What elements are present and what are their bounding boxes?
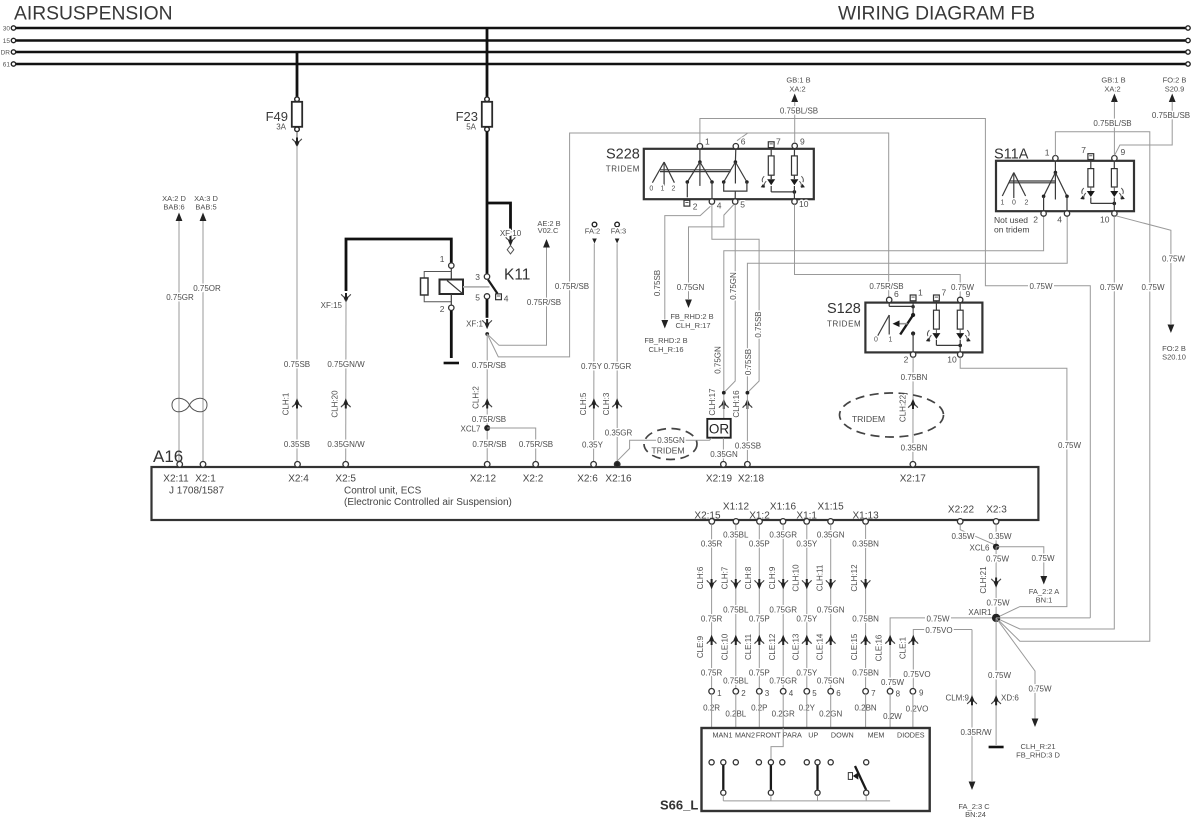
- svg-text:CLE:14: CLE:14: [815, 633, 824, 660]
- svg-text:DR: DR: [1, 49, 11, 56]
- svg-text:S228: S228: [606, 147, 640, 163]
- svg-text:1: 1: [889, 337, 893, 344]
- svg-text:X2:2: X2:2: [523, 474, 544, 485]
- svg-text:X2:15: X2:15: [694, 510, 721, 521]
- S128 pin 7: [934, 295, 940, 301]
- svg-text:0.75P: 0.75P: [749, 669, 770, 678]
- svg-text:0: 0: [1012, 200, 1016, 207]
- svg-text:CLH:20: CLH:20: [331, 390, 340, 418]
- svg-text:X2:18: X2:18: [738, 474, 765, 485]
- wire XCL6 to XAIR1: [995, 547, 997, 614]
- node FB_RHD:2 B CLH_R:17: [670, 300, 713, 330]
- svg-text:8: 8: [896, 690, 901, 699]
- svg-text:X2:16: X2:16: [605, 474, 632, 485]
- svg-text:Not used: Not used: [994, 215, 1028, 225]
- S11A pin 2: [1041, 211, 1046, 216]
- svg-text:1: 1: [661, 186, 665, 193]
- svg-text:DOWN: DOWN: [831, 731, 854, 740]
- svg-text:X2:19: X2:19: [706, 474, 733, 485]
- node GB:1 B XA:2 above S11A: [1101, 76, 1125, 103]
- svg-text:0.75BL/SB: 0.75BL/SB: [780, 106, 818, 115]
- connector below F49: [296, 132, 298, 139]
- svg-text:5: 5: [740, 200, 745, 210]
- pin X1:1: [796, 510, 817, 524]
- wire S228 pin 6 diagonal: [737, 133, 748, 141]
- svg-text:0.75BN: 0.75BN: [852, 615, 879, 624]
- svg-text:3A: 3A: [276, 123, 286, 132]
- svg-text:0.75BN: 0.75BN: [901, 373, 928, 382]
- svg-text:TRIDEM: TRIDEM: [651, 446, 684, 456]
- svg-text:4: 4: [789, 689, 794, 698]
- S128 switch symbol: [874, 302, 915, 352]
- wire S228 pin 4 to S11A pin 4 riser: [712, 204, 759, 392]
- svg-text:on tridem: on tridem: [994, 225, 1029, 235]
- wire A16 X1:13 to S66_L: [865, 524, 867, 688]
- wire XCL6 to FA_2:2 A: [996, 547, 1044, 576]
- svg-text:GB:1 B: GB:1 B: [786, 76, 810, 85]
- bus line 61: [3, 61, 1190, 68]
- svg-text:X1:2: X1:2: [749, 510, 770, 521]
- svg-text:FRONT: FRONT: [756, 731, 781, 740]
- pin 2: [449, 305, 454, 310]
- svg-text:0.2VO: 0.2VO: [906, 704, 929, 713]
- svg-text:OR: OR: [709, 422, 730, 437]
- pin X1:12: [723, 502, 750, 525]
- svg-text:X2:11: X2:11: [163, 474, 189, 485]
- svg-text:X1:12: X1:12: [723, 502, 750, 513]
- svg-text:0.75BN: 0.75BN: [852, 669, 879, 678]
- svg-text:0.75SB: 0.75SB: [653, 270, 662, 296]
- bus line 30: [3, 25, 1190, 32]
- svg-text:0.75GR: 0.75GR: [604, 362, 632, 371]
- svg-text:2: 2: [904, 355, 909, 365]
- wire XAIR1 to CLH_R:21 FB_RHD:3 D: [996, 618, 1035, 719]
- svg-text:0.75W: 0.75W: [951, 283, 975, 292]
- S228 selector 0 1 2: [649, 162, 675, 193]
- svg-text:TRIDEM: TRIDEM: [852, 414, 885, 424]
- svg-text:0.75R/SB: 0.75R/SB: [527, 298, 561, 307]
- svg-text:10: 10: [799, 199, 809, 209]
- S128 pin 10: [958, 352, 963, 357]
- svg-text:5A: 5A: [466, 123, 476, 132]
- pin 6: [828, 689, 834, 695]
- svg-text:FA:2: FA:2: [585, 227, 600, 236]
- wire S128 pin 2 to X2:17: [912, 357, 914, 461]
- wire S11A pin 10 to XAIR1: [996, 216, 1114, 629]
- wire S228 pin 9 to GB:1B: [794, 102, 796, 143]
- S228 selector B: [722, 149, 749, 199]
- wire XAIR1 to MEM common (pin 8): [890, 618, 996, 689]
- svg-text:CLH:16: CLH:16: [732, 390, 741, 418]
- wire S228 pin 5 to FB_RHD:2B CLH_R:17: [689, 204, 734, 299]
- wire FA:3 to X2:16: [616, 244, 618, 462]
- svg-text:CLH:10: CLH:10: [791, 564, 800, 592]
- S228 pin 1: [697, 144, 702, 149]
- svg-text:FO:2 B: FO:2 B: [1163, 76, 1187, 85]
- svg-text:3: 3: [475, 272, 480, 282]
- wire CLH:16 to X2:18: [746, 395, 748, 462]
- svg-text:CLE:9: CLE:9: [696, 635, 705, 658]
- fuse F49: [266, 97, 303, 132]
- wire A16 X1:12 to S66_L: [735, 524, 737, 688]
- svg-text:CLE:15: CLE:15: [850, 633, 859, 660]
- svg-text:BN:24: BN:24: [965, 810, 986, 819]
- pin X2:19: [706, 462, 733, 485]
- pin X2:17: [900, 462, 927, 485]
- wire A16 X1:2 to S66_L: [758, 524, 760, 688]
- S228 lamp pin9: [790, 149, 805, 188]
- wire X2:18 net to S11A pin 4: [747, 216, 1067, 392]
- svg-text:0.75P: 0.75P: [749, 615, 770, 624]
- bus line DR: [1, 49, 1191, 56]
- svg-text:0.75R: 0.75R: [701, 615, 723, 624]
- S11A coupling lines: [1009, 180, 1055, 182]
- svg-text:0.75GR: 0.75GR: [769, 606, 797, 615]
- wire S228 pin 1 net to XAIR1: [700, 119, 1090, 618]
- svg-text:0.75R/SB: 0.75R/SB: [472, 415, 506, 424]
- svg-text:0.35R: 0.35R: [701, 540, 723, 549]
- svg-text:0.75GN: 0.75GN: [677, 283, 705, 292]
- svg-text:2: 2: [440, 304, 445, 314]
- S11A pin 1: [1053, 156, 1058, 161]
- svg-text:0.75SB: 0.75SB: [744, 349, 753, 375]
- wire into S66_L: [782, 694, 784, 760]
- S128 lamp pin9: [956, 303, 971, 342]
- svg-text:0: 0: [874, 337, 878, 344]
- svg-text:CLH:6: CLH:6: [696, 566, 705, 589]
- pin X2:3: [986, 505, 1007, 525]
- svg-text:0.75R/SB: 0.75R/SB: [555, 282, 589, 291]
- svg-text:AIRSUSPENSION: AIRSUSPENSION: [14, 4, 173, 25]
- svg-text:2: 2: [672, 186, 676, 193]
- S228 pin 10: [792, 199, 797, 204]
- ground XF:1: [466, 319, 492, 329]
- svg-text:Control unit, ECS: Control unit, ECS: [344, 486, 422, 497]
- svg-text:S20.9: S20.9: [1165, 84, 1185, 93]
- svg-text:0.75W: 0.75W: [1028, 684, 1052, 693]
- ground K11: [444, 362, 459, 365]
- svg-text:CLH:9: CLH:9: [768, 566, 777, 589]
- wire S228 pin 4 to FB_RHD:2B CLH_R:16: [665, 206, 711, 319]
- svg-text:0.75W: 0.75W: [986, 599, 1010, 608]
- node FB_RHD:2 B CLH_R:16: [644, 320, 687, 354]
- svg-text:FB_RHD:2 B: FB_RHD:2 B: [670, 312, 713, 321]
- wire A16 X1:16 to S66_L: [782, 524, 784, 688]
- pin X1:16: [770, 502, 797, 525]
- svg-text:MAN2: MAN2: [735, 731, 755, 740]
- wire CLM:9 column to FA_2:3 C: [971, 630, 973, 782]
- wire K11 pin 5 down: [486, 299, 489, 318]
- S11A pin 9: [1112, 156, 1117, 161]
- svg-text:0.75W: 0.75W: [1031, 554, 1055, 563]
- svg-text:0.75W: 0.75W: [988, 671, 1012, 680]
- S11A lamp pin7: [1080, 158, 1095, 199]
- svg-text:XAIR1: XAIR1: [968, 608, 992, 617]
- pin X2:4: [288, 462, 309, 485]
- wire into S66_L: [735, 694, 737, 760]
- pin X2:12: [470, 462, 497, 485]
- pin 4: [496, 294, 502, 300]
- S11A selector 1 0 2: [1001, 173, 1029, 207]
- node FA:2: [585, 222, 600, 243]
- pin X2:11: [163, 462, 189, 485]
- S11A pin 7: [1088, 154, 1094, 160]
- svg-text:0.75W: 0.75W: [1141, 283, 1165, 292]
- S128 pin 9: [958, 297, 963, 302]
- svg-text:0.75BL/SB: 0.75BL/SB: [1093, 119, 1131, 128]
- svg-text:10: 10: [947, 355, 957, 365]
- S128 lamp pin7: [926, 299, 941, 341]
- svg-text:PARA: PARA: [783, 731, 802, 740]
- svg-text:9: 9: [919, 689, 924, 698]
- pin X2:1: [195, 462, 216, 485]
- label 0.35GN: [657, 436, 686, 444]
- label 0.75VO: [925, 626, 954, 634]
- svg-text:0.35GR: 0.35GR: [769, 531, 797, 540]
- pin 5: [484, 294, 489, 299]
- ellipse TRIDEM: [644, 429, 697, 460]
- pin X1:2: [749, 510, 770, 524]
- svg-text:7: 7: [1081, 145, 1086, 155]
- pin 7: [863, 689, 869, 695]
- control unit A16: [152, 447, 1039, 520]
- wire OR to X2:19: [722, 438, 724, 462]
- svg-text:4: 4: [1057, 215, 1062, 225]
- pin X2:15: [694, 510, 721, 524]
- node FA_2:2 A BN:1: [1029, 576, 1059, 604]
- svg-text:0.35Y: 0.35Y: [582, 441, 604, 450]
- svg-text:0.35BL: 0.35BL: [723, 531, 749, 540]
- svg-text:CLH:12: CLH:12: [850, 564, 859, 592]
- svg-text:0.75BL: 0.75BL: [723, 677, 749, 686]
- svg-text:CLE:12: CLE:12: [768, 633, 777, 660]
- pin 8: [887, 689, 893, 695]
- svg-text:3: 3: [765, 689, 770, 698]
- wire A16 X1:1 to S66_L: [806, 524, 808, 688]
- wire A16 X1:15 to S66_L: [830, 524, 832, 688]
- splice XCL7: [484, 425, 490, 431]
- svg-text:K11: K11: [504, 267, 530, 284]
- wire S228 pin 5 down to CLH:17: [724, 204, 735, 392]
- wire 0.75VO branch to pin 9: [913, 630, 972, 689]
- junction CLH:16 column: [746, 391, 750, 395]
- ground XF:15: [321, 293, 351, 310]
- wire S11A pin 10 to FO:2B S20.10: [1116, 216, 1171, 324]
- S228 selector A: [686, 149, 714, 199]
- svg-text:X2:3: X2:3: [986, 505, 1007, 516]
- svg-text:CLH_R:16: CLH_R:16: [648, 345, 683, 354]
- svg-text:4: 4: [504, 294, 509, 304]
- svg-text:X1:16: X1:16: [770, 502, 797, 513]
- wire X2:16 to OR (tridem): [617, 438, 711, 461]
- svg-text:0.35BN: 0.35BN: [901, 444, 928, 453]
- svg-text:0.35R/W: 0.35R/W: [960, 728, 992, 737]
- node FA:3: [611, 222, 626, 243]
- wire pin 9 into S66_L: [912, 694, 914, 729]
- svg-text:TRIDEM: TRIDEM: [827, 320, 861, 329]
- svg-text:0.35GN: 0.35GN: [710, 450, 738, 459]
- svg-text:CLE:1: CLE:1: [899, 636, 908, 659]
- svg-text:6: 6: [741, 137, 746, 147]
- wire XF:1 junction to X2:12: [486, 334, 488, 462]
- svg-text:XF:1: XF:1: [466, 320, 483, 329]
- wire K11 pin 2 to ground: [450, 311, 453, 358]
- node XA:3 D BAB:5: [194, 194, 218, 221]
- S228 pin 6: [733, 144, 738, 149]
- svg-text:4: 4: [717, 201, 722, 211]
- wire into S66_L: [711, 694, 713, 760]
- node FO:2 B S20.9: [1163, 76, 1187, 103]
- svg-text:BAB:5: BAB:5: [195, 203, 216, 212]
- svg-text:9: 9: [800, 137, 805, 147]
- switch S228: [606, 147, 814, 200]
- S66_L common wire: [723, 795, 890, 801]
- svg-text:0.75Y: 0.75Y: [796, 669, 818, 678]
- svg-text:0.75GN/W: 0.75GN/W: [327, 360, 365, 369]
- svg-text:0.75BL/SB: 0.75BL/SB: [1152, 111, 1190, 120]
- svg-text:CLH:21: CLH:21: [979, 566, 988, 594]
- svg-text:GB:1 B: GB:1 B: [1101, 76, 1125, 85]
- S128 pin 6: [887, 297, 892, 302]
- wire XAIR1 to ground: [995, 618, 997, 745]
- svg-text:10: 10: [1100, 215, 1110, 225]
- svg-text:X2:6: X2:6: [577, 474, 598, 485]
- junction CLH:17 column: [722, 391, 726, 395]
- wire XF:1 to S228 ground net: [487, 133, 889, 357]
- node FA_2:3 C BN:24: [958, 782, 990, 820]
- S66_L PARA wire jog: [771, 728, 783, 760]
- svg-text:CLE:11: CLE:11: [744, 633, 753, 660]
- svg-text:0.2W: 0.2W: [883, 712, 902, 721]
- wire S11A pin 2 to OR column: [724, 216, 1044, 392]
- svg-text:0.75W: 0.75W: [1058, 441, 1082, 450]
- wire XA:3D to X2:1: [202, 221, 204, 462]
- junction below XF:1: [485, 332, 489, 336]
- svg-text:(Electronic Controlled air Sus: (Electronic Controlled air Suspension): [344, 497, 512, 508]
- wire S11A pin 1 to XAIR1: [996, 132, 1150, 642]
- svg-text:X2:17: X2:17: [900, 474, 927, 485]
- pin X2:16: [605, 462, 632, 485]
- wire into S66_L: [806, 694, 808, 760]
- svg-text:9: 9: [1121, 147, 1126, 157]
- svg-text:1: 1: [717, 689, 722, 698]
- svg-text:0.75Y: 0.75Y: [796, 615, 818, 624]
- svg-text:XA:2: XA:2: [1104, 84, 1120, 93]
- ellipse TRIDEM 2: [840, 393, 944, 437]
- switch S11A: [994, 147, 1134, 235]
- svg-text:UP: UP: [808, 731, 818, 740]
- svg-text:XCL6: XCL6: [969, 544, 990, 553]
- svg-text:0.75GN: 0.75GN: [729, 272, 738, 300]
- svg-text:0.75SB: 0.75SB: [754, 311, 763, 337]
- svg-text:2: 2: [693, 202, 698, 212]
- svg-text:0.35SB: 0.35SB: [284, 440, 310, 449]
- S128 lamp common: [936, 340, 962, 352]
- svg-text:0.75R/SB: 0.75R/SB: [472, 440, 506, 449]
- svg-text:CLM:9: CLM:9: [945, 694, 969, 703]
- S128 pin 2: [910, 352, 915, 357]
- svg-text:0.75Y: 0.75Y: [581, 362, 603, 371]
- svg-text:0.35GN/W: 0.35GN/W: [327, 440, 365, 449]
- svg-text:X2:5: X2:5: [335, 474, 356, 485]
- wire FA:2 to X2:6: [593, 244, 596, 462]
- node XA:2 D BAB:6: [162, 194, 186, 221]
- svg-text:BN:1: BN:1: [1036, 595, 1053, 604]
- svg-text:WIRING DIAGRAM FB: WIRING DIAGRAM FB: [838, 4, 1035, 25]
- ground below XAIR1: [989, 746, 1004, 749]
- switch S128: [827, 301, 982, 352]
- pin X2:6: [577, 462, 598, 485]
- svg-text:CLH:3: CLH:3: [602, 392, 611, 415]
- svg-text:0.35W: 0.35W: [988, 532, 1012, 541]
- S228 lamp common wire: [771, 186, 796, 199]
- svg-text:15: 15: [3, 38, 11, 45]
- svg-text:5: 5: [812, 689, 817, 698]
- svg-text:6: 6: [894, 289, 899, 299]
- pin X2:5: [335, 462, 356, 485]
- svg-text:0.75GR: 0.75GR: [769, 677, 797, 686]
- wire XA:2D to X2:11: [178, 221, 180, 462]
- label 0.75W: [925, 614, 951, 622]
- svg-text:X1:13: X1:13: [853, 510, 880, 521]
- svg-text:2: 2: [1033, 215, 1038, 225]
- svg-text:0.75W: 0.75W: [1100, 283, 1124, 292]
- wire S11A pin 9 to GB:1B: [1113, 102, 1115, 156]
- svg-text:0.75GN: 0.75GN: [817, 606, 845, 615]
- svg-text:X2:12: X2:12: [470, 474, 497, 485]
- gate OR: [707, 419, 730, 438]
- svg-text:7: 7: [942, 288, 947, 298]
- svg-text:S66_L: S66_L: [660, 798, 698, 813]
- svg-text:CLH:2: CLH:2: [472, 386, 481, 409]
- svg-text:0.75W: 0.75W: [881, 678, 905, 687]
- switch S66_L: [660, 728, 930, 813]
- pin 3: [757, 689, 763, 695]
- svg-text:5: 5: [475, 293, 480, 303]
- svg-text:CLH_R:17: CLH_R:17: [675, 321, 710, 330]
- svg-text:S20.10: S20.10: [1162, 352, 1186, 361]
- splice XAIR1: [992, 614, 1000, 622]
- wire K11 coil feed from XF:15: [346, 239, 451, 291]
- S228 lamp pin7: [761, 148, 776, 188]
- svg-text:7: 7: [871, 689, 876, 698]
- svg-text:0.75SB: 0.75SB: [284, 360, 310, 369]
- svg-text:6: 6: [836, 689, 841, 698]
- svg-text:30: 30: [3, 25, 11, 32]
- S228 pin 2: [684, 200, 690, 206]
- S66_L MEM lever: [848, 766, 866, 790]
- svg-text:FA:3: FA:3: [611, 227, 626, 236]
- connector XF:10: [500, 229, 522, 254]
- svg-text:2: 2: [1025, 200, 1029, 207]
- svg-text:XCL7: XCL7: [460, 425, 481, 434]
- svg-text:XA:2: XA:2: [789, 84, 805, 93]
- wire S128 pin 10 to XAIR1: [960, 357, 1067, 618]
- S66_L switch bars: [722, 765, 724, 790]
- svg-text:FB_RHD:3 D: FB_RHD:3 D: [1016, 750, 1060, 759]
- pin X2:22: [948, 505, 975, 525]
- svg-text:XF:15: XF:15: [321, 301, 343, 310]
- svg-text:0.75R/SB: 0.75R/SB: [472, 361, 506, 370]
- svg-text:9: 9: [966, 289, 971, 299]
- wire bus 30 to F23: [486, 28, 489, 97]
- wire pin 8 into S66_L: [889, 694, 891, 801]
- svg-text:1: 1: [440, 254, 445, 264]
- wire into OR box: [723, 395, 725, 419]
- svg-text:CLH:7: CLH:7: [720, 566, 729, 589]
- svg-text:DIODES: DIODES: [897, 731, 925, 740]
- svg-text:7: 7: [776, 137, 781, 147]
